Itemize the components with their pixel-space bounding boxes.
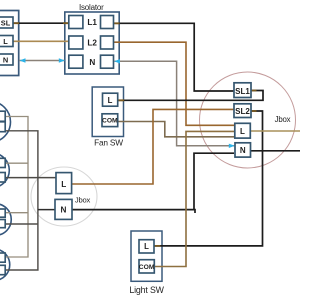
svg-text:Fan SW: Fan SW: [94, 138, 123, 148]
wire: lamp 3 bottom to chain: [5, 223, 38, 225]
svg-text:SL1: SL1: [235, 87, 250, 96]
arrow into isolator N right: [114, 59, 120, 63]
svg-text:COM: COM: [139, 264, 155, 271]
lamp DO3 circle: [0, 204, 11, 236]
isolator terminal row3 left: [69, 55, 83, 68]
isolator terminal row3 right: [101, 55, 114, 68]
svg-text:L: L: [240, 127, 245, 136]
svg-text:N: N: [89, 58, 95, 67]
supply terminal SL: [0, 17, 13, 28]
wire: isolator N out to Jbox N (grey neutral): [115, 61, 235, 146]
right Jbox terminal SL2: [234, 104, 251, 118]
wire: left Jbox L to Jbox SL2 (brown): [72, 109, 234, 184]
lamp 2 terminal top: [0, 158, 5, 167]
isolator terminal row1 left: [69, 16, 83, 29]
wire: Jbox SL2 wrap to Light SW L (black): [154, 111, 262, 246]
wire: Light SW COM to Jbox L (brown): [154, 131, 234, 266]
left Jbox circle: [31, 167, 97, 226]
lamp DO4 circle: [0, 249, 10, 281]
supply terminal L: [0, 36, 13, 47]
arrow into Jbox N left: [229, 144, 235, 148]
wire: lamp 2 bottom to left Jbox L: [5, 177, 56, 179]
wire: isolator L1 out to Jbox SL1 (black): [114, 23, 235, 91]
wire: lamp 2 top to chain: [5, 162, 28, 164]
right Jbox terminal N: [235, 143, 251, 157]
wire: supply L to isolator L2 (brown): [13, 40, 69, 42]
left Jbox terminal L: [56, 173, 72, 194]
wire: Jbox SL1 wrap to Fan SW L (black): [118, 91, 263, 101]
svg-text:L: L: [3, 37, 8, 46]
svg-text:L: L: [61, 180, 66, 189]
arrow into isolator N left: [59, 58, 65, 62]
svg-text:L: L: [108, 96, 113, 105]
isolator terminal row2 right: [101, 36, 114, 49]
wire: lamp bottoms chain (dark): [5, 131, 38, 270]
left Jbox terminal N: [55, 199, 72, 219]
light switch terminal L: [139, 240, 154, 253]
wire: Jbox N exits right edge (black): [251, 150, 301, 152]
lamp DO1 circle: [0, 101, 11, 142]
svg-text:Jbox: Jbox: [75, 196, 91, 205]
isolator box outline: [65, 12, 119, 74]
right Jbox circle: [200, 72, 296, 168]
lamp 3 terminal top: [0, 209, 5, 217]
svg-text:Isolator: Isolator: [79, 3, 104, 12]
wire: Jbox N to left Jbox N (black): [72, 153, 234, 213]
wire: supply N to isolator N (grey neutral): [19, 60, 65, 62]
svg-text:N: N: [3, 56, 8, 65]
lamp DO2 circle: [0, 153, 9, 188]
wire: Jbox L exits right edge (tan): [251, 130, 301, 132]
lamp 1 terminal bottom: [0, 122, 5, 132]
wire: supply SL to isolator L1 (black): [13, 22, 69, 24]
svg-text:SL: SL: [1, 19, 11, 28]
wire: isolator L2 out to Jbox L (brown): [114, 42, 235, 125]
wire: Fan SW COM to Jbox L (brown): [118, 122, 234, 137]
svg-text:L: L: [144, 242, 149, 251]
svg-text:Light SW: Light SW: [129, 285, 164, 295]
arrow into supply N: [20, 58, 26, 62]
wire: chain branch to left Jbox N: [38, 209, 55, 211]
svg-text:L2: L2: [87, 38, 97, 47]
lamp 3 terminal bottom: [0, 220, 5, 228]
supply box outline: [0, 11, 19, 76]
light switch terminal COM: [139, 260, 155, 273]
fan switch terminal L: [103, 93, 118, 106]
svg-text:L1: L1: [87, 18, 97, 27]
svg-text:N: N: [61, 205, 67, 214]
light switch box outline: [131, 231, 162, 281]
right Jbox terminal L: [235, 123, 251, 138]
lamp 1 terminal top: [0, 111, 5, 121]
fan switch terminal COM: [102, 114, 118, 127]
lamp 4 terminal top: [0, 253, 5, 262]
isolator terminal row1 right: [101, 16, 114, 29]
svg-text:COM: COM: [102, 118, 118, 125]
wire: lamp tops chain (light grey): [5, 117, 28, 258]
supply terminal N: [0, 54, 13, 65]
fan switch box outline: [92, 87, 123, 137]
lamp 2 terminal bottom: [0, 173, 5, 183]
svg-text:Jbox: Jbox: [275, 115, 291, 124]
right Jbox terminal SL1: [234, 83, 251, 98]
isolator terminal row2 left: [69, 36, 83, 49]
svg-text:SL2: SL2: [235, 107, 250, 116]
lamp 4 terminal bottom: [0, 265, 5, 274]
wire: lamp 3 top to chain: [5, 212, 28, 214]
svg-text:N: N: [240, 146, 246, 155]
